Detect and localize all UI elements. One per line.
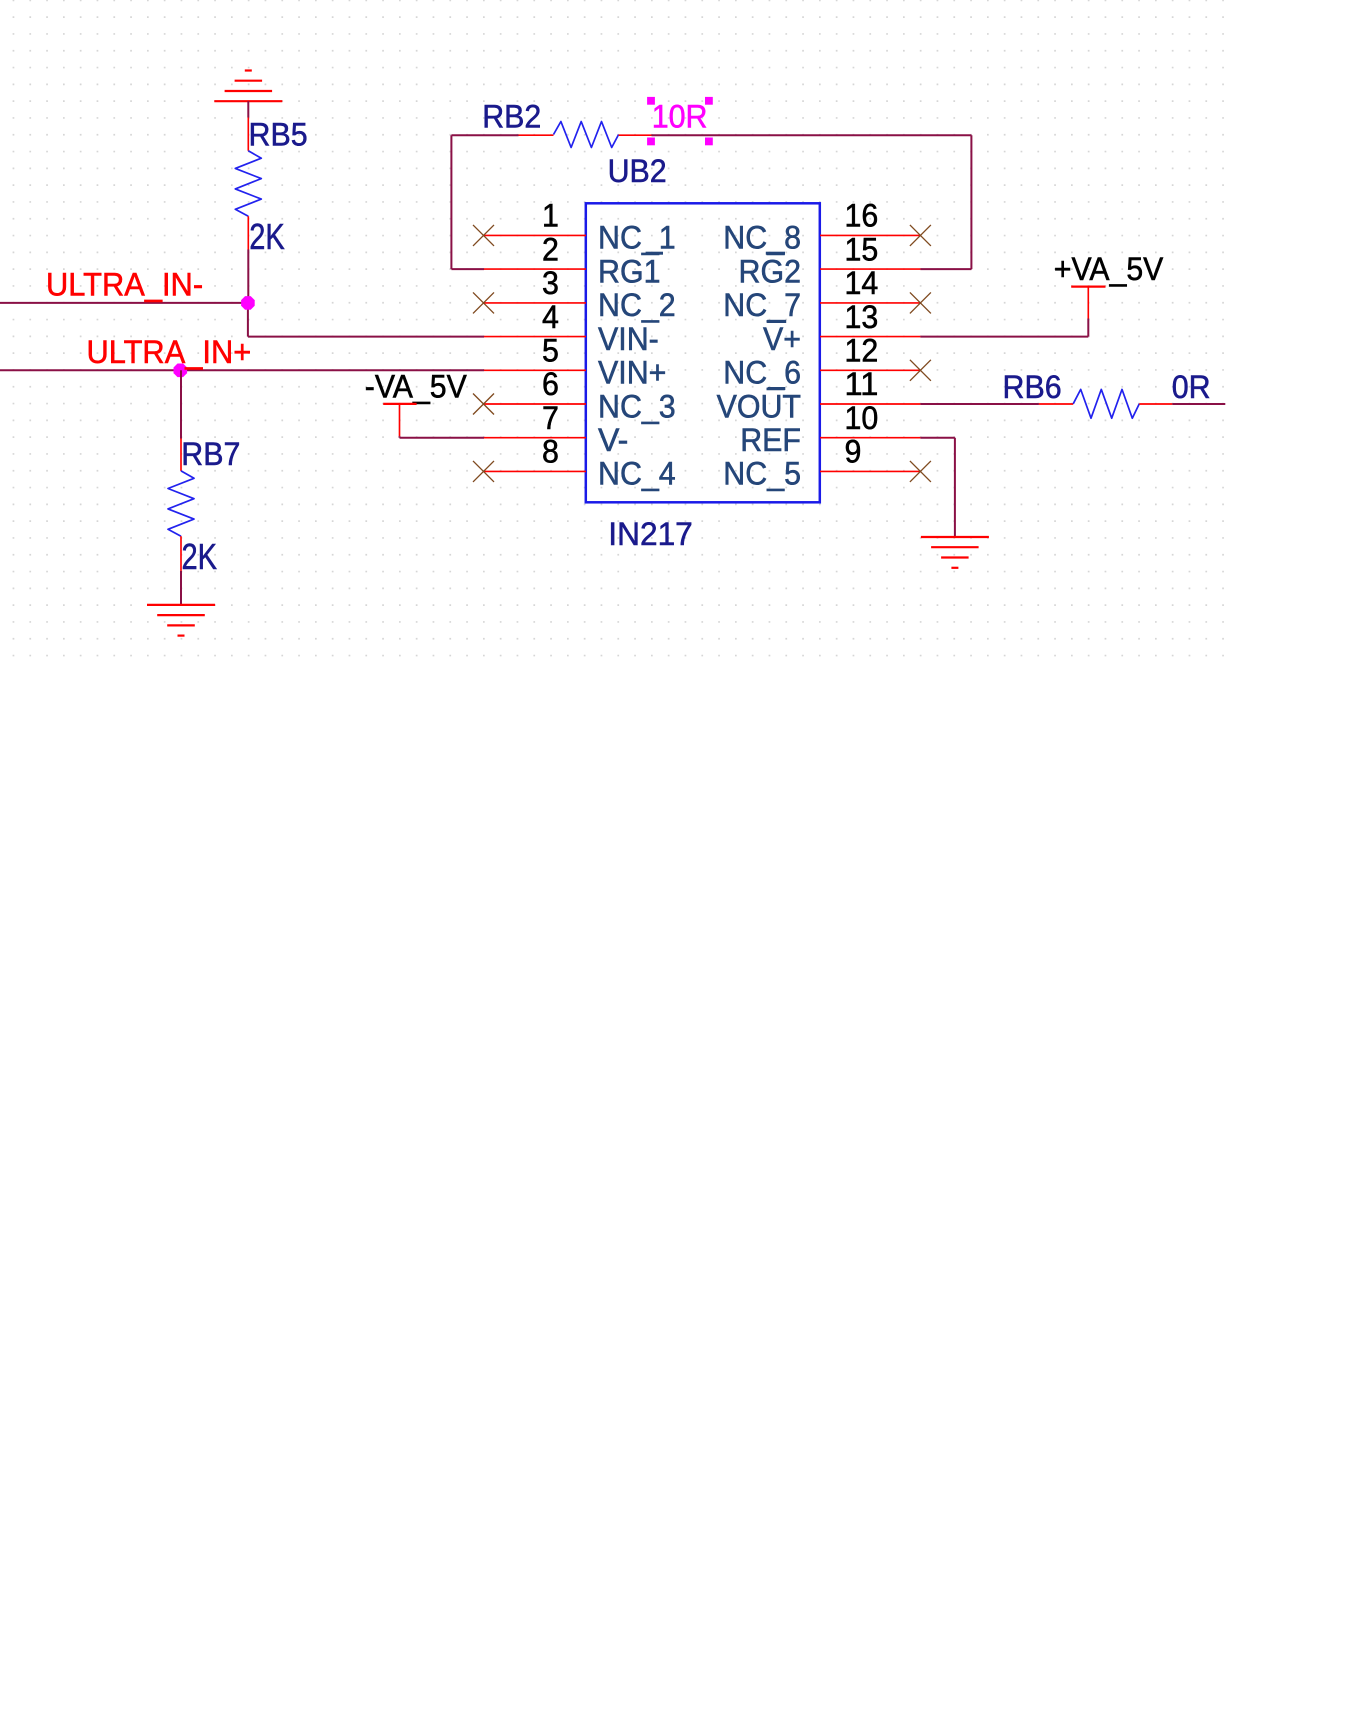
svg-text:RB6: RB6 [1003, 369, 1062, 405]
svg-text:RG2: RG2 [739, 253, 802, 289]
svg-text:0R: 0R [1172, 369, 1211, 405]
svg-text:-VA_5V: -VA_5V [365, 369, 468, 405]
svg-text:UB2: UB2 [608, 153, 667, 189]
svg-text:15: 15 [845, 231, 879, 267]
svg-text:NC_2: NC_2 [598, 287, 676, 323]
svg-text:4: 4 [542, 299, 559, 335]
svg-text:NC_6: NC_6 [723, 355, 801, 391]
svg-text:V-: V- [598, 422, 628, 458]
svg-text:RB7: RB7 [181, 436, 240, 472]
svg-text:NC_7: NC_7 [723, 287, 801, 323]
svg-text:3: 3 [542, 265, 559, 301]
svg-text:ULTRA_IN+: ULTRA_IN+ [87, 334, 252, 370]
svg-text:2K: 2K [249, 216, 285, 257]
svg-text:12: 12 [845, 333, 879, 369]
svg-text:+VA_5V: +VA_5V [1054, 251, 1164, 287]
svg-text:11: 11 [845, 366, 879, 402]
svg-text:REF: REF [740, 422, 801, 458]
svg-text:NC_4: NC_4 [598, 456, 676, 492]
svg-text:14: 14 [845, 265, 879, 301]
svg-text:2: 2 [542, 231, 559, 267]
svg-text:10R: 10R [652, 99, 708, 135]
svg-text:NC_5: NC_5 [723, 456, 801, 492]
svg-text:NC_1: NC_1 [598, 220, 676, 256]
svg-text:VIN+: VIN+ [598, 355, 666, 391]
svg-text:NC_8: NC_8 [723, 220, 801, 256]
svg-text:9: 9 [845, 434, 862, 470]
svg-text:RG1: RG1 [598, 253, 661, 289]
svg-text:5: 5 [542, 333, 559, 369]
svg-text:ULTRA_IN-: ULTRA_IN- [46, 266, 203, 302]
svg-text:VOUT: VOUT [717, 388, 801, 424]
svg-text:7: 7 [542, 400, 559, 436]
svg-text:RB2: RB2 [482, 99, 541, 135]
svg-text:10: 10 [845, 400, 879, 436]
svg-text:13: 13 [845, 299, 879, 335]
svg-text:2K: 2K [182, 536, 218, 577]
svg-text:VIN-: VIN- [598, 321, 659, 357]
svg-text:IN217: IN217 [608, 516, 693, 552]
svg-text:1: 1 [542, 198, 559, 234]
svg-text:16: 16 [845, 198, 879, 234]
svg-text:V+: V+ [763, 321, 801, 357]
svg-text:6: 6 [542, 366, 559, 402]
svg-text:8: 8 [542, 434, 559, 470]
svg-text:NC_3: NC_3 [598, 388, 676, 424]
svg-text:RB5: RB5 [249, 117, 308, 153]
